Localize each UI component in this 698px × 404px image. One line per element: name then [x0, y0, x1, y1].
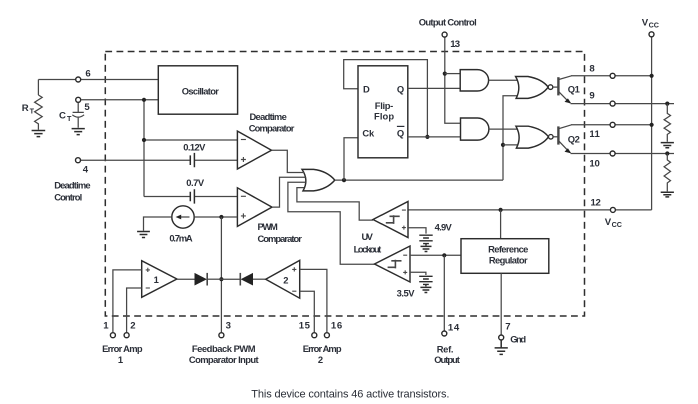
label Reference Regulator — [488, 243, 528, 265]
svg-text:D: D — [363, 84, 370, 95]
error amplifier 1 — [142, 261, 177, 298]
wire reference regulator top feed — [500, 210, 502, 239]
wire pin13 output control drop — [445, 37, 461, 123]
wire OR output to NOR feed — [335, 179, 503, 181]
label Output Control — [419, 17, 477, 28]
svg-text:12: 12 — [591, 198, 601, 209]
label UV Lockout — [354, 231, 382, 255]
label VCC top — [642, 17, 659, 29]
UV comparator B — [375, 246, 411, 282]
svg-text:Deadtime: Deadtime — [54, 179, 90, 190]
terminal pin 2 — [124, 333, 129, 338]
amplifier number 1 — [154, 274, 159, 285]
svg-text:1: 1 — [154, 274, 159, 285]
svg-text:5: 5 — [84, 102, 90, 113]
label RT — [22, 103, 35, 116]
svg-text:7: 7 — [505, 322, 510, 333]
pin number 4 — [83, 164, 89, 175]
wire PWM comparator output to OR input 2 — [272, 177, 306, 207]
4-input OR gate U-OR — [302, 169, 335, 191]
svg-text:0.12V: 0.12V — [183, 141, 206, 152]
pin number 2 — [130, 321, 135, 332]
svg-text:This device contains 46 active: This device contains 46 active transisto… — [251, 389, 449, 401]
junction pin10 resistor node — [665, 151, 669, 155]
wire UV B + input to 3.5V source — [410, 272, 426, 275]
pin number 1 — [103, 321, 109, 332]
svg-text:T: T — [67, 114, 72, 123]
pin number 15 — [299, 321, 311, 332]
svg-text:9: 9 — [589, 91, 594, 102]
oscillator block — [158, 66, 237, 114]
label VCC pin12 — [605, 217, 622, 229]
svg-text:4.9V: 4.9V — [435, 222, 453, 233]
junction UV A minus node — [499, 208, 503, 212]
junction pin9 resistor node — [665, 102, 669, 106]
wire node to NOR2 lower input — [503, 144, 521, 146]
wire Q2 emitter to pin 10 row — [571, 153, 675, 155]
pin number 10 — [589, 158, 599, 169]
svg-text:Q1: Q1 — [568, 83, 580, 94]
junction pin5 node — [142, 98, 146, 102]
svg-text:15: 15 — [299, 321, 311, 332]
amplifier number 2 — [283, 274, 288, 285]
resistor RT — [35, 95, 43, 130]
label Deadtime Comparator — [249, 111, 295, 134]
wire Q output to AND1 — [408, 87, 460, 89]
error amplifier 2 — [266, 260, 300, 298]
capacitor CT — [72, 103, 84, 128]
wire EA2 - input to pin 15 — [300, 291, 315, 332]
ground for 4.9V — [421, 246, 432, 251]
label CT — [59, 110, 72, 123]
diode D2 — [240, 273, 253, 286]
svg-text:CC: CC — [612, 220, 622, 229]
label PWM Comparator — [258, 221, 303, 244]
pin number 3 — [226, 321, 231, 332]
wire EA1 output to diode D1 — [177, 278, 195, 280]
IC boundary dashed box — [105, 52, 584, 317]
wire Q1 collector to pin 8 row — [571, 75, 652, 77]
svg-text:14: 14 — [448, 323, 460, 334]
junction deadtime minus node — [142, 138, 146, 142]
label Deadtime Control — [54, 179, 90, 202]
wire Ck vertical — [344, 138, 358, 180]
terminal pin 8 — [610, 73, 615, 78]
label 0.12V — [183, 141, 206, 152]
terminal pin 15 — [312, 333, 317, 338]
label Flip-Flop — [374, 100, 394, 122]
svg-text:Ck: Ck — [362, 127, 375, 138]
svg-text:R: R — [22, 103, 29, 114]
wire feedback node to D2 — [221, 278, 240, 280]
svg-text:Control: Control — [54, 191, 82, 202]
junction pin8 VCC node — [650, 74, 654, 78]
wire EA1 - input to pin 2 — [127, 288, 142, 332]
0.12V offset source bars — [190, 153, 194, 167]
wire OR input 3 from UV comparator B — [288, 182, 375, 264]
terminal pin 14 — [442, 331, 447, 336]
svg-text:3: 3 — [226, 321, 231, 332]
svg-text:Oscillator: Oscillator — [182, 85, 219, 96]
svg-text:11: 11 — [589, 129, 600, 140]
label Q1 — [568, 83, 580, 94]
wire NOR feed vertical — [503, 96, 521, 180]
wire EA2 + input to pin 16 — [300, 269, 327, 332]
svg-text:Error Amp: Error Amp — [102, 343, 143, 354]
pin number 13 — [450, 39, 460, 50]
junction diode node — [219, 277, 223, 281]
wire Qbar output to AND2 — [408, 136, 461, 138]
wire D2 to EA2 output — [253, 278, 266, 280]
transistor Q2 — [553, 125, 571, 154]
wire deadtime comparator output to OR input 1 — [272, 150, 305, 172]
wire current source left lead to ground — [144, 217, 172, 231]
wire pin4 row with 0.12V source to deadtime comparator + input — [81, 159, 237, 161]
NOR gate 2 — [516, 126, 553, 148]
terminal pin 6 — [76, 77, 81, 82]
junction D loop to Qbar node — [425, 135, 429, 139]
wire EA1 + input to pin 1 — [113, 270, 142, 332]
terminal pin 4 — [76, 158, 81, 163]
wire 0.7V row to PWM comparator - input — [144, 196, 237, 198]
diode D1 — [195, 273, 208, 286]
svg-text:0.7V: 0.7V — [186, 177, 205, 188]
svg-text:Flop: Flop — [374, 111, 394, 122]
resistor R-E2 — [664, 154, 670, 192]
terminal pin 13 — [442, 32, 447, 37]
terminal VCC top — [649, 32, 654, 37]
svg-text:6: 6 — [85, 68, 90, 79]
svg-text:Regulator: Regulator — [489, 255, 528, 266]
svg-text:2: 2 — [318, 354, 323, 365]
AND gate 2 — [461, 118, 489, 140]
battery 3.5V — [419, 276, 432, 286]
pin number 8 — [589, 63, 595, 74]
svg-text:4: 4 — [83, 164, 89, 175]
svg-text:Q: Q — [397, 128, 404, 139]
pin number 16 — [331, 321, 342, 332]
terminal pin 16 — [324, 333, 329, 338]
deadtime comparator U-DT — [237, 131, 271, 169]
svg-text:0.7mA: 0.7mA — [169, 232, 192, 243]
svg-text:Deadtime: Deadtime — [250, 111, 287, 122]
label Ref. Output — [434, 344, 460, 365]
flip-flop pin labels — [362, 84, 404, 139]
svg-text:CC: CC — [649, 20, 659, 29]
NOR gate 1 — [516, 77, 553, 99]
svg-text:2: 2 — [283, 274, 288, 285]
wire pin6 down to RT — [37, 80, 39, 96]
label 3.5V — [397, 288, 416, 299]
label Gnd — [510, 334, 526, 345]
svg-text:Output Control: Output Control — [419, 17, 477, 28]
ground for 3.5V — [420, 287, 431, 292]
junction pin14 node — [442, 253, 446, 257]
ground for current source — [137, 232, 150, 238]
terminal pin 12 — [610, 207, 615, 212]
label Q2 — [568, 133, 580, 144]
terminal pin 5 — [76, 97, 81, 102]
label 0.7mA — [169, 232, 192, 243]
svg-text:PWM: PWM — [258, 221, 278, 232]
terminal pin 10 — [610, 151, 615, 156]
junction feedback node — [219, 215, 223, 219]
svg-text:Q2: Q2 — [568, 133, 580, 144]
wire pin14 vertical — [443, 255, 445, 330]
pin number 14 — [448, 323, 460, 334]
svg-text:Comparator: Comparator — [249, 123, 295, 134]
wire AND1 output to NOR1 — [489, 79, 520, 81]
svg-text:T: T — [30, 106, 35, 115]
svg-text:Flip-: Flip- — [375, 100, 393, 111]
wire pin12 VCC row — [408, 209, 652, 211]
svg-text:Reference: Reference — [488, 243, 528, 254]
label 4.9V — [435, 222, 453, 233]
wire pin13 node to AND1 input — [445, 73, 460, 75]
svg-text:Comparator: Comparator — [258, 233, 303, 244]
AND gate 1 — [460, 70, 488, 91]
wire UV B - row to reference regulator — [410, 254, 461, 256]
ground for RT — [32, 131, 46, 137]
flip-flop block — [358, 66, 408, 158]
ground for R-E2 — [661, 192, 674, 197]
svg-text:13: 13 — [450, 39, 460, 50]
ground for R-E1 — [661, 143, 674, 148]
label 0.7V — [186, 177, 205, 188]
wire current source to PWM comparator + input — [194, 216, 237, 218]
wire pin5 to oscillator — [81, 99, 158, 101]
junction NOR2 feed node — [501, 143, 505, 147]
svg-text:1: 1 — [118, 354, 123, 365]
wire pin6 to oscillator — [38, 79, 158, 81]
svg-text:8: 8 — [589, 63, 595, 74]
pin number 6 — [85, 68, 90, 79]
terminal pin 11 — [610, 122, 615, 127]
wire D feedback loop — [344, 60, 428, 137]
wire Q1 emitter to pin 9 row — [571, 103, 675, 105]
battery 4.9V — [419, 235, 432, 245]
svg-text:Lockout: Lockout — [354, 243, 382, 254]
svg-text:1: 1 — [103, 321, 109, 332]
svg-text:10: 10 — [589, 158, 599, 169]
wire CT sawtooth vertical from pin5 node — [143, 100, 145, 197]
UV comparator A — [373, 202, 408, 238]
pin number 9 — [589, 91, 594, 102]
svg-text:3.5V: 3.5V — [397, 288, 416, 299]
svg-text:Comparator Input: Comparator Input — [189, 354, 259, 365]
wire UV A + input to 4.9V source — [408, 228, 426, 234]
wire feedback vertical to pin 3 — [220, 217, 222, 332]
terminal pin 9 — [610, 101, 615, 106]
svg-text:Q: Q — [397, 84, 404, 95]
wire OR input 4 from UV comparator A — [297, 188, 373, 221]
label Oscillator — [182, 85, 219, 96]
wire VCC rail vertical — [651, 37, 653, 210]
resistor R-E1 — [664, 104, 670, 142]
reference regulator block — [461, 239, 549, 274]
junction pin11 VCC node — [650, 123, 654, 127]
svg-text:Feedback PWM: Feedback PWM — [192, 343, 256, 354]
label Error Amp 2 — [303, 343, 342, 365]
transistor Q1 — [553, 76, 572, 104]
label Feedback PWM Comparator Input — [189, 343, 259, 365]
PWM comparator U-PWM — [237, 188, 272, 227]
pin number 5 — [84, 102, 90, 113]
terminal pin 7 — [499, 335, 504, 340]
svg-text:UV: UV — [362, 231, 374, 242]
pin number 7 — [505, 322, 510, 333]
svg-text:2: 2 — [130, 321, 135, 332]
terminal pin 3 — [219, 333, 224, 338]
wire Q2 collector to pin 11 row — [571, 124, 652, 126]
terminal pin 1 — [110, 333, 115, 338]
wire AND2 output to NOR2 — [489, 128, 520, 130]
svg-text:C: C — [59, 110, 66, 121]
label Error Amp 1 — [102, 343, 143, 365]
svg-text:Error Amp: Error Amp — [303, 343, 342, 354]
ground for CT — [72, 129, 85, 135]
svg-text:Output: Output — [434, 354, 460, 365]
0.7V offset source bars — [190, 189, 194, 203]
caption This device contains 46 active transistors — [251, 389, 449, 401]
junction pin13 to AND1 — [443, 72, 447, 76]
svg-text:Gnd: Gnd — [510, 334, 526, 345]
wire reference regulator to pin 7 ground — [500, 273, 502, 334]
current source 0.7mA — [172, 206, 194, 228]
ground for pin 7 — [495, 341, 508, 355]
pin number 11 — [589, 129, 600, 140]
Qbar overline — [397, 125, 405, 127]
wire node to deadtime comparator - input — [144, 139, 237, 141]
pin number 12 — [591, 198, 601, 209]
wire D1 to feedback node — [207, 278, 221, 280]
svg-text:16: 16 — [331, 321, 342, 332]
junction OR output node — [342, 178, 346, 182]
